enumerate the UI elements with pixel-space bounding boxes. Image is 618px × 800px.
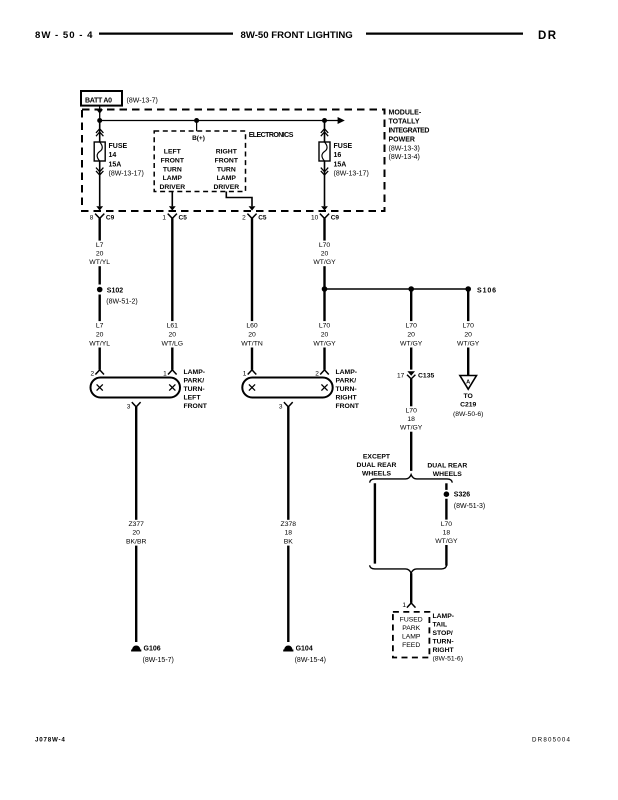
svg-text:LAMP-: LAMP- <box>184 369 206 376</box>
svg-text:L70: L70 <box>406 408 418 415</box>
svg-text:Z378: Z378 <box>281 521 297 528</box>
svg-text:BATT A0: BATT A0 <box>85 97 112 104</box>
svg-text:L61: L61 <box>167 322 179 329</box>
svg-text:DUAL REAR: DUAL REAR <box>427 463 467 470</box>
svg-text:FRONT: FRONT <box>161 157 185 164</box>
svg-text:17: 17 <box>397 372 405 379</box>
svg-text:PARK/: PARK/ <box>336 377 357 384</box>
svg-text:FEED: FEED <box>402 642 420 649</box>
svg-text:C9: C9 <box>331 214 340 221</box>
svg-text:(8W-51-6): (8W-51-6) <box>433 656 463 663</box>
svg-text:DRIVER: DRIVER <box>159 184 185 191</box>
svg-text:S106: S106 <box>477 288 497 295</box>
svg-text:WT/GY: WT/GY <box>313 340 336 347</box>
svg-text:(8W-13-17): (8W-13-17) <box>109 171 144 178</box>
svg-text:PARK: PARK <box>402 625 420 632</box>
svg-text:1: 1 <box>243 370 247 377</box>
svg-text:TAIL: TAIL <box>433 622 448 629</box>
svg-text:LEFT: LEFT <box>164 149 182 156</box>
svg-text:RIGHT: RIGHT <box>433 647 455 654</box>
svg-text:18: 18 <box>443 529 451 536</box>
svg-text:2: 2 <box>315 370 319 377</box>
svg-text:FRONT: FRONT <box>336 403 360 410</box>
svg-text:L70: L70 <box>319 242 331 249</box>
svg-text:WT/GY: WT/GY <box>400 340 423 347</box>
svg-text:TURN: TURN <box>163 166 182 173</box>
svg-text:INTEGRATED: INTEGRATED <box>389 128 430 135</box>
svg-text:C9: C9 <box>106 214 115 221</box>
svg-text:WT/TN: WT/TN <box>241 340 263 347</box>
svg-text:16: 16 <box>334 152 342 159</box>
svg-text:FRONT: FRONT <box>184 403 208 410</box>
svg-text:1: 1 <box>163 370 167 377</box>
svg-text:20: 20 <box>321 331 329 338</box>
svg-text:10: 10 <box>311 214 319 221</box>
svg-text:WT/GY: WT/GY <box>457 340 480 347</box>
svg-text:8W-50 FRONT LIGHTING: 8W-50 FRONT LIGHTING <box>241 30 353 41</box>
svg-text:L7: L7 <box>96 322 104 329</box>
svg-text:(8W-13-7): (8W-13-7) <box>127 98 158 105</box>
svg-text:LAMP: LAMP <box>163 175 183 182</box>
svg-text:8: 8 <box>90 214 94 221</box>
svg-text:WT/GY: WT/GY <box>435 538 458 545</box>
svg-text:G104: G104 <box>296 646 313 653</box>
svg-text:EXCEPT: EXCEPT <box>363 453 391 460</box>
svg-text:LAMP: LAMP <box>217 175 237 182</box>
svg-text:STOP/: STOP/ <box>433 630 453 637</box>
svg-text:WT/LG: WT/LG <box>162 340 184 347</box>
svg-text:C135: C135 <box>418 372 434 379</box>
svg-text:C5: C5 <box>179 214 188 221</box>
svg-text:14: 14 <box>109 152 117 159</box>
svg-text:TURN-: TURN- <box>184 386 205 393</box>
svg-text:(8W-15-7): (8W-15-7) <box>143 657 174 664</box>
svg-text:15A: 15A <box>334 161 347 168</box>
svg-text:BK/BR: BK/BR <box>126 538 146 545</box>
svg-text:RIGHT: RIGHT <box>336 394 358 401</box>
svg-text:(8W-13-3): (8W-13-3) <box>389 145 420 152</box>
svg-text:WT/GY: WT/GY <box>313 259 336 266</box>
svg-text:TURN-: TURN- <box>433 639 454 646</box>
svg-text:20: 20 <box>248 331 256 338</box>
svg-text:2: 2 <box>242 214 246 221</box>
svg-text:15A: 15A <box>109 161 122 168</box>
svg-text:(8W-13-4): (8W-13-4) <box>389 154 420 161</box>
svg-text:18: 18 <box>285 530 293 537</box>
svg-text:L60: L60 <box>246 322 258 329</box>
svg-text:LEFT: LEFT <box>184 394 202 401</box>
svg-text:DR805004: DR805004 <box>532 737 571 744</box>
svg-text:(8W-13-17): (8W-13-17) <box>334 171 369 178</box>
svg-text:20: 20 <box>407 331 415 338</box>
svg-text:C5: C5 <box>258 214 267 221</box>
svg-text:WT/YL: WT/YL <box>89 340 110 347</box>
svg-text:ELECTRONICS: ELECTRONICS <box>249 132 294 139</box>
svg-text:BK: BK <box>284 538 294 545</box>
svg-text:1: 1 <box>402 602 406 609</box>
svg-text:A: A <box>466 379 470 385</box>
svg-text:LAMP-: LAMP- <box>336 369 358 376</box>
svg-text:RIGHT: RIGHT <box>216 149 238 156</box>
svg-text:20: 20 <box>464 331 472 338</box>
svg-text:LAMP-: LAMP- <box>433 613 455 620</box>
svg-text:B(+): B(+) <box>192 135 205 142</box>
svg-text:(8W-15-4): (8W-15-4) <box>295 657 326 664</box>
svg-text:FUSED: FUSED <box>400 616 423 623</box>
svg-text:FUSE: FUSE <box>334 143 353 150</box>
svg-text:TO: TO <box>464 393 473 400</box>
svg-text:TURN: TURN <box>217 166 236 173</box>
svg-text:18: 18 <box>407 416 415 423</box>
svg-text:J078W-4: J078W-4 <box>35 737 66 744</box>
svg-text:20: 20 <box>169 331 177 338</box>
svg-text:DRIVER: DRIVER <box>213 184 239 191</box>
svg-text:G106: G106 <box>144 646 161 653</box>
svg-text:POWER: POWER <box>389 136 415 143</box>
svg-text:TURN-: TURN- <box>336 386 357 393</box>
svg-text:2: 2 <box>90 370 94 377</box>
svg-text:3: 3 <box>127 404 131 411</box>
svg-text:20: 20 <box>132 530 140 537</box>
svg-text:L70: L70 <box>319 322 331 329</box>
svg-text:3: 3 <box>279 404 283 411</box>
svg-text:LAMP: LAMP <box>402 633 421 640</box>
svg-text:WHEELS: WHEELS <box>433 471 463 478</box>
svg-text:WHEELS: WHEELS <box>362 470 392 477</box>
svg-text:C219: C219 <box>460 401 476 408</box>
svg-text:MODULE-: MODULE- <box>389 110 422 117</box>
svg-text:8W - 50 - 4: 8W - 50 - 4 <box>35 30 93 41</box>
svg-text:20: 20 <box>321 250 329 257</box>
svg-text:L70: L70 <box>463 322 475 329</box>
svg-text:L70: L70 <box>441 521 453 528</box>
svg-text:20: 20 <box>96 331 104 338</box>
svg-text:DR: DR <box>538 30 557 42</box>
svg-text:TOTALLY: TOTALLY <box>389 119 420 126</box>
svg-text:Z377: Z377 <box>128 521 144 528</box>
svg-text:FRONT: FRONT <box>215 157 239 164</box>
svg-text:FUSE: FUSE <box>109 143 128 150</box>
svg-text:L70: L70 <box>406 322 418 329</box>
svg-text:1: 1 <box>162 214 166 221</box>
svg-text:20: 20 <box>96 250 104 257</box>
svg-text:(8W-51-3): (8W-51-3) <box>454 503 485 510</box>
svg-text:DUAL REAR: DUAL REAR <box>357 462 397 469</box>
svg-text:L7: L7 <box>96 242 104 249</box>
svg-text:PARK/: PARK/ <box>184 377 205 384</box>
svg-text:S102: S102 <box>107 287 123 294</box>
svg-text:S326: S326 <box>454 492 470 499</box>
svg-text:WT/GY: WT/GY <box>400 425 423 432</box>
svg-text:(8W-51-2): (8W-51-2) <box>106 299 137 306</box>
svg-text:WT/YL: WT/YL <box>89 259 110 266</box>
svg-text:(8W-50-6): (8W-50-6) <box>453 411 483 418</box>
